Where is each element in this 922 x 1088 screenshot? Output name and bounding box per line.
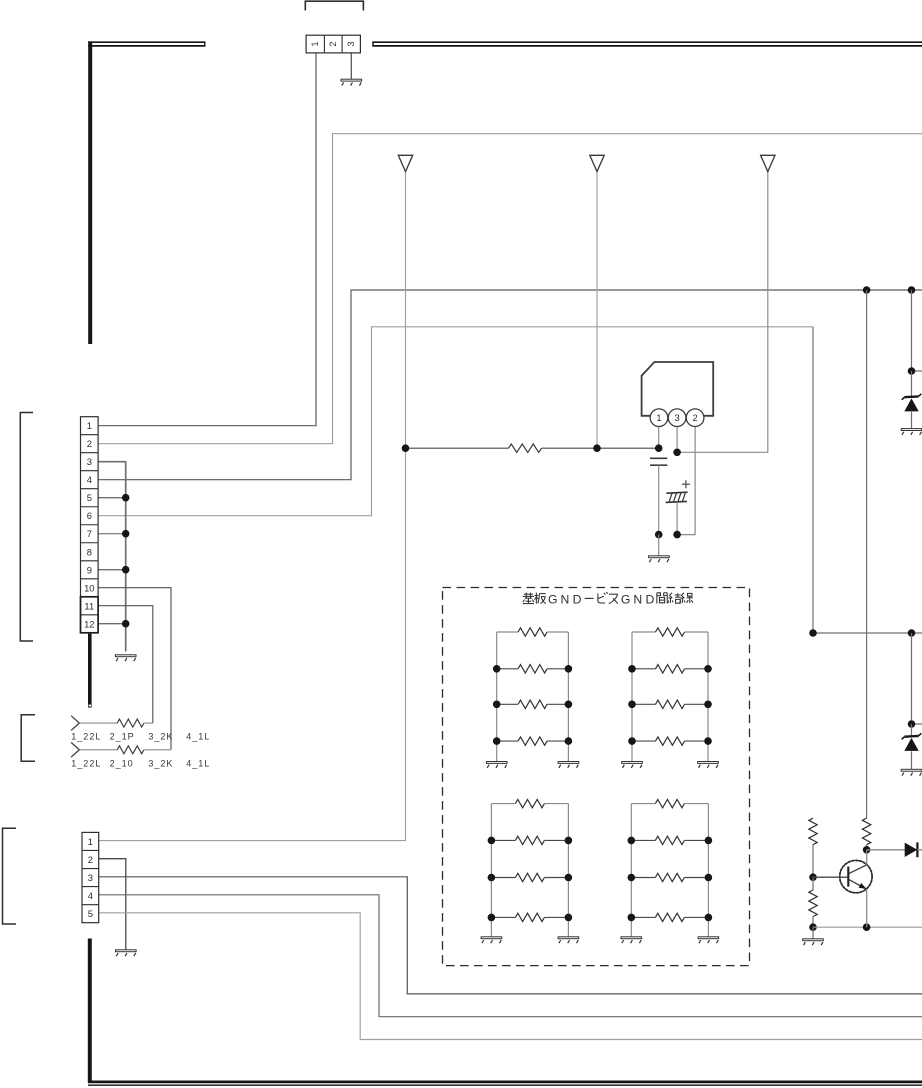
group TR resistor row4 — [632, 737, 708, 745]
junction dot regulator pin3 node — [673, 449, 681, 457]
group BR resistor row4 — [631, 913, 708, 921]
group TL top resistor — [497, 628, 569, 636]
chevron arrow row1 — [71, 716, 79, 731]
frame: bottom-left thick vertical bar — [88, 939, 92, 1084]
group TL row2 junction dots — [493, 665, 572, 673]
wire row2 — [79, 749, 117, 751]
svg-text:1_22L: 1_22L — [71, 732, 101, 742]
group BL top resistor — [491, 799, 568, 807]
svg-text:10: 10 — [84, 582, 94, 593]
resistor R y448 — [509, 444, 542, 452]
wire: regulator pin3 lead down — [676, 420, 678, 452]
off-page triangle T3 — [761, 155, 775, 171]
svg-text:D: D — [645, 593, 654, 607]
group TR top resistor — [632, 628, 708, 636]
junction dot at (911.5,633) — [908, 629, 916, 637]
svg-text:N: N — [633, 593, 642, 607]
svg-text:7: 7 — [87, 528, 92, 539]
group BR right ground — [698, 937, 719, 943]
junction dot regulator pin1 node — [655, 444, 663, 452]
wire stub right from zener D1 node — [912, 370, 922, 372]
junction dot zener D1 node — [908, 367, 916, 375]
group TL left ground — [486, 762, 507, 768]
wire from bottom node to ground — [658, 535, 660, 556]
bracket left of 12-pin connector — [20, 413, 33, 642]
resistor R top on x813 — [809, 818, 817, 845]
junction dot zener D2 node — [908, 720, 916, 728]
svg-text:2_1P: 2_1P — [110, 732, 135, 742]
group BL right rail — [567, 804, 569, 937]
wire row1 — [79, 722, 117, 724]
wire: resistor to base node on x813 — [812, 845, 814, 878]
wire net: 5-pin pin5 right, down, right to page edge — [99, 913, 922, 1040]
group BR left rail — [630, 804, 632, 937]
svg-text:2_10: 2_10 — [110, 759, 134, 769]
wire: horizontal y927.2 rail to page edge — [813, 926, 922, 928]
resistor row2 — [117, 746, 144, 754]
connector tail thick bar below 12-pin — [88, 634, 92, 708]
resistor R on x866.6 — [862, 818, 870, 845]
svg-text:3: 3 — [674, 412, 679, 423]
junction dot y927.2 x866.6 — [863, 923, 871, 931]
wire: regulator pin1 lead down — [658, 420, 660, 448]
wire: triangle T3 vertical down and left to regulator pin3 — [677, 172, 768, 452]
frame: bottom double bus bar — [88, 1082, 922, 1085]
svg-text:2: 2 — [88, 854, 93, 865]
group BR resistor row2 — [631, 836, 708, 844]
group BL right ground — [558, 937, 579, 943]
junction dot collector node — [863, 846, 871, 854]
off-page triangle T1 — [398, 155, 412, 171]
wire: node to zener D1 — [911, 371, 913, 396]
zener diode D1 — [902, 394, 922, 412]
group TL row3 junction dots — [493, 701, 572, 709]
wire net: 5-pin pin3 right, down, right to page edge — [99, 877, 922, 994]
wire stub right from zener D2 node — [912, 723, 922, 725]
wire: zener D1 anode to ground — [911, 412, 913, 429]
wire stub: pin12 to bus — [98, 623, 126, 625]
title text GND linkage (kanji drawn as paths) — [523, 592, 693, 607]
svg-text:3: 3 — [346, 41, 356, 46]
svg-text:9: 9 — [87, 564, 92, 575]
wire: resistor bottom to ground node — [812, 917, 814, 928]
group BR row4 junction dots — [628, 914, 713, 922]
diode D3 — [905, 842, 922, 857]
group BL resistor row3 — [491, 873, 568, 881]
svg-text:1: 1 — [87, 420, 92, 431]
off-page triangle T2 — [590, 155, 604, 171]
regulator pin circle 3 — [668, 409, 686, 427]
group TL row4 junction dots — [493, 737, 572, 745]
wire row2 right to pin10 drop — [144, 749, 171, 751]
regulator pin circle 1 — [650, 409, 668, 427]
plus sign of electrolytic cap C2 — [682, 480, 690, 488]
frame: left thick vertical bar — [88, 41, 92, 344]
wire: left segment of y448 net — [406, 447, 509, 449]
group BR top resistor — [631, 799, 708, 807]
connector CN 5-pin body — [82, 832, 99, 922]
svg-text:1: 1 — [310, 41, 320, 46]
wire stub: pin9 to bus — [98, 569, 126, 571]
group TL right rail — [567, 632, 569, 762]
bracket above connector CN top — [305, 1, 363, 10]
group TR right ground — [698, 762, 719, 768]
wire: base from x813 node — [813, 876, 847, 878]
connector CN 12-pin body — [81, 417, 99, 633]
junction dot at (813,633) — [809, 629, 817, 637]
junction dot bottom node left — [655, 531, 663, 539]
chevron arrow row2 — [71, 742, 79, 757]
svg-text:2: 2 — [692, 412, 697, 423]
frame: top-left double bus bar — [88, 42, 206, 46]
wire: horizontal rail y633 to page edge — [813, 632, 922, 634]
junction dot bottom node right — [673, 531, 681, 539]
svg-text:G: G — [621, 593, 630, 607]
svg-text:1: 1 — [88, 836, 93, 847]
group TR row4 junction dots — [628, 737, 712, 745]
group TR left rail — [631, 632, 633, 762]
wire: top connector pin3 to ground — [350, 53, 352, 79]
junction dot T2/y448 — [593, 444, 601, 452]
ground at bottom of pin3 bus — [115, 655, 136, 661]
wire row1 right to pin11 drop — [144, 722, 153, 724]
wire: vertical from y326.8 rail down to node at y633 — [812, 327, 814, 633]
wire: 12-pin pin3 ground bus — [98, 462, 126, 652]
group TL right ground — [558, 762, 579, 768]
svg-text:3: 3 — [88, 872, 93, 883]
junction dot on y290 rail at x911.5 — [908, 286, 916, 294]
resistor R bottom on x813 — [809, 890, 817, 917]
group BL resistor row4 — [491, 913, 568, 921]
wire: node to zener D2 — [911, 724, 913, 736]
wire below C2 — [676, 502, 678, 535]
wire: collector node to diode D3 — [867, 849, 905, 851]
wire: ground drop below x813 node — [812, 927, 814, 939]
svg-text:N: N — [560, 593, 569, 607]
frame: top-right double bus bar — [372, 42, 922, 46]
wire net: 5-pin pin4 right, down, right to page edge — [99, 895, 922, 1017]
bracket left of line rows — [21, 715, 35, 762]
junction dot pin7 bus — [122, 530, 130, 538]
svg-text:4_1L: 4_1L — [186, 732, 210, 742]
label row1 values — [71, 732, 210, 742]
ground below top connector pin3 — [341, 79, 362, 85]
resistor row1 — [117, 719, 144, 727]
svg-text:1: 1 — [656, 412, 661, 423]
bracket left of 5-pin connector — [3, 828, 17, 924]
wire stub: pin5 to bus — [98, 497, 126, 499]
svg-text:5: 5 — [88, 908, 93, 919]
ground below x813 — [803, 939, 824, 945]
wire net: 12-pin pin4 up to horizontal rail y290 to page edge — [98, 290, 922, 480]
group TL resistor row3 — [497, 700, 569, 708]
wire: resistor to collector node — [866, 845, 868, 850]
svg-text:1_22L: 1_22L — [71, 759, 101, 769]
zener diode D2 — [902, 733, 922, 751]
wire: right segment of y448 net to regulator pin1 — [542, 447, 659, 449]
junction dot base node — [809, 873, 817, 881]
group BL resistor row2 — [491, 836, 568, 844]
transistor Q1 collector stroke — [849, 865, 867, 874]
wire net: pin11 right then down to row1 — [98, 606, 153, 723]
junction dot pin5 bus — [122, 494, 130, 502]
wire: base node to resistor bottom — [812, 877, 814, 890]
wire: 5-pin pin2 to ground — [99, 859, 126, 950]
group BR row2 junction dots — [628, 837, 713, 845]
wire: zener D2 anode to ground — [911, 751, 913, 769]
group TR resistor row3 — [632, 700, 708, 708]
group BR resistor row3 — [631, 873, 708, 881]
svg-text:3: 3 — [87, 456, 92, 467]
junction dot T1/y448 — [402, 444, 410, 452]
svg-text:2: 2 — [328, 41, 338, 46]
group BR row3 junction dots — [628, 874, 713, 882]
ground below regulator node — [649, 556, 670, 562]
group TR right rail — [707, 632, 709, 762]
wire net: pin10 right then down to row2 — [98, 588, 171, 750]
junction dot on y290 rail at x866.6 — [863, 286, 871, 294]
wire net: 12-pin pin6 up to horizontal rail y326.8 — [98, 327, 813, 516]
wire net: 5-pin pin1 to triangle T1 vertical — [99, 172, 406, 841]
regulator U1 body — [642, 362, 714, 416]
wire net: 12-pin pin2 up and right to page edge — [98, 134, 922, 444]
svg-text:11: 11 — [84, 600, 94, 611]
wire: x911.5 vertical y290 to zener D1 node — [911, 290, 913, 371]
group TR left ground — [622, 762, 643, 768]
transistor Q1 circle — [840, 860, 872, 892]
wire: x911.5 vertical y633 to zener D2 node — [911, 633, 913, 724]
junction dot pin12 bus — [122, 620, 130, 628]
group BL row4 junction dots — [488, 914, 573, 922]
svg-text:4_1L: 4_1L — [186, 759, 210, 769]
ground below zener D1 — [901, 429, 922, 435]
wire: top connector pin1 down to 12-pin connector pin1 — [98, 53, 316, 426]
svg-text:4: 4 — [87, 474, 92, 485]
transistor Q1 base bar — [847, 867, 849, 887]
group TR resistor row2 — [632, 665, 708, 673]
svg-text:6: 6 — [87, 510, 92, 521]
group BR right rail — [707, 804, 709, 937]
svg-text:G: G — [548, 593, 557, 607]
group TR row2 junction dots — [628, 665, 712, 673]
svg-text:12: 12 — [84, 618, 94, 629]
group BR left ground — [621, 937, 642, 943]
group TR row3 junction dots — [628, 701, 712, 709]
svg-text:D: D — [573, 593, 582, 607]
ground below zener D2 — [901, 769, 922, 775]
group BL row2 junction dots — [488, 837, 573, 845]
group BL row3 junction dots — [488, 874, 573, 882]
group TL left rail — [496, 632, 498, 762]
svg-text:3_2K: 3_2K — [148, 732, 173, 742]
svg-text:2: 2 — [87, 438, 92, 449]
group TL resistor row2 — [497, 665, 569, 673]
regulator pin circle 2 — [686, 409, 704, 427]
wire: x866.6 vertical from y290 rail to resistor — [866, 290, 868, 818]
label row2 values — [71, 759, 210, 769]
ground below 5-pin pin2 — [116, 950, 137, 956]
svg-text:5: 5 — [87, 492, 92, 503]
wire stub: pin7 to bus — [98, 533, 126, 535]
dashed boundary box — [443, 588, 750, 966]
wire: regulator pin2 lead down then left to node — [677, 420, 695, 535]
capacitor C1 plates — [650, 458, 667, 465]
junction dot pin9 bus — [122, 566, 130, 574]
svg-text:3_2K: 3_2K — [148, 759, 173, 769]
svg-text:4: 4 — [88, 890, 93, 901]
group BL left ground — [481, 937, 502, 943]
wire below C1 to bottom node — [658, 465, 660, 534]
group TL resistor row4 — [497, 737, 569, 745]
wire: triangle T2 vertical down to resistor net — [596, 172, 598, 448]
transistor Q1 emitter stroke with arrow — [849, 880, 867, 890]
svg-text:8: 8 — [87, 546, 92, 557]
electrolytic capacitor C2 hatched body — [666, 492, 688, 502]
junction dot ground node x813 — [809, 923, 817, 931]
group BL left rail — [490, 804, 492, 937]
